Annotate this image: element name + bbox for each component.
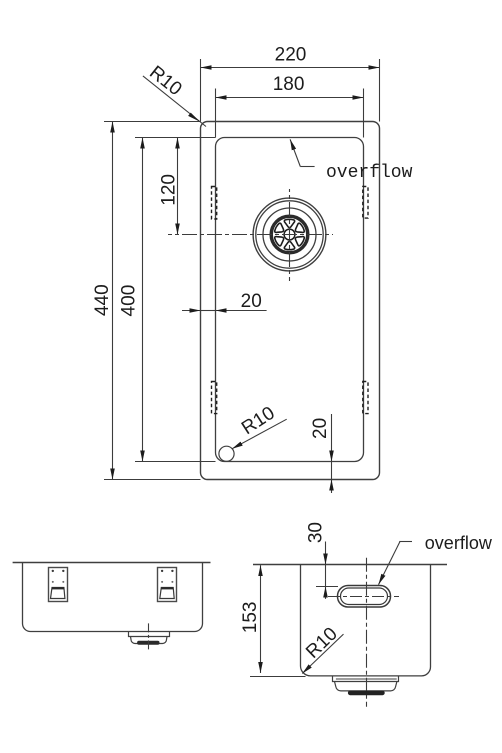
drain fitting side view — [333, 676, 399, 695]
svg-text:440: 440 — [92, 284, 113, 316]
body outline — [301, 565, 431, 676]
overflow label right view — [399, 541, 412, 543]
drain centerline — [148, 623, 150, 651]
dimension line 220 with arrows — [201, 67, 291, 69]
outer rim rectangle — [201, 122, 380, 480]
extension line right, dim 220 — [379, 59, 381, 122]
slot horizontal centerline — [328, 596, 399, 598]
dimension 120 — [177, 138, 179, 235]
drain horizontal centerline — [168, 234, 333, 236]
inner bowl rectangle — [216, 138, 364, 462]
dimension line 180 with arrows — [216, 97, 290, 99]
svg-text:20: 20 — [241, 291, 262, 312]
svg-text:153: 153 — [240, 602, 261, 634]
R10 label bottom of top view — [219, 446, 234, 461]
R10 label right view — [302, 634, 343, 673]
extension line left, dim 220 — [200, 59, 202, 122]
dimension 220 — [201, 59, 380, 122]
drain assembly, top view — [168, 189, 333, 281]
svg-text:overflow: overflow — [326, 163, 413, 183]
strainer holes (6 petals) — [274, 219, 306, 249]
extension line top, dim 440 — [104, 121, 201, 123]
strainer center knob — [284, 229, 295, 240]
dimension 440 — [104, 122, 201, 480]
rim line — [13, 562, 211, 564]
dimension 180 — [216, 89, 364, 138]
dimension 30 — [316, 542, 338, 599]
dimension 20 vertical — [331, 414, 333, 493]
svg-text:120: 120 — [159, 174, 180, 206]
extension line left, dim 180 — [215, 89, 217, 138]
mounting clip right — [158, 568, 177, 602]
body outline — [23, 563, 203, 632]
mounting clip left — [49, 568, 68, 602]
view vertical centerline — [366, 558, 368, 707]
drain flange outer circle — [253, 198, 326, 271]
overflow slot outer — [338, 586, 391, 608]
extension line top, dim 400 — [135, 137, 216, 139]
svg-text:overflow: overflow — [425, 533, 493, 553]
extension line right, dim 180 — [363, 89, 365, 138]
extension line bottom, dim 400 — [135, 461, 216, 463]
svg-text:220: 220 — [275, 45, 307, 66]
R10 label top-left — [143, 76, 206, 127]
svg-text:400: 400 — [118, 285, 139, 317]
dimension 20 horizontal — [182, 310, 267, 312]
dimension line 153 with arrows — [260, 565, 262, 617]
svg-text:180: 180 — [273, 74, 305, 95]
overflow label top view — [290, 139, 300, 166]
clip left lower (dashed) — [212, 382, 217, 414]
clip right lower (dashed) — [363, 382, 368, 414]
dimension line 400 with arrows — [142, 138, 144, 301]
drain vertical centerline — [289, 189, 291, 281]
dimension line 30 with arrows — [325, 542, 327, 565]
strainer dark ring — [271, 216, 308, 253]
rim line — [253, 564, 447, 566]
drain flange second circle — [256, 201, 323, 268]
dimension 153 — [250, 565, 306, 676]
extension line at overflow slot top, dim 30 — [316, 586, 338, 588]
dimension line 440 with arrows — [112, 122, 114, 301]
drain fitting front view — [129, 623, 170, 651]
extension line bottom, dim 153 — [250, 676, 306, 678]
clip left upper (dashed) — [212, 187, 217, 220]
dimension 400 — [135, 138, 216, 462]
drain recess circle — [263, 208, 316, 261]
extension line bottom, dim 440 — [104, 479, 201, 481]
overflow slot inner — [341, 588, 388, 605]
svg-text:20: 20 — [310, 418, 331, 439]
svg-text:30: 30 — [306, 522, 327, 543]
clip right upper (dashed) — [363, 187, 368, 219]
